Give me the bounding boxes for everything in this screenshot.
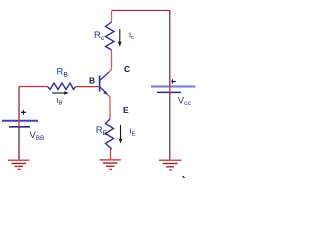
wire left branch horizontal — [19, 86, 48, 88]
svg-text:C: C — [124, 64, 130, 74]
plus VCC — [171, 79, 176, 84]
resistor RB — [48, 83, 76, 90]
resistor RC — [106, 22, 115, 50]
wire emitter lead — [108, 95, 111, 120]
transistor Q1 — [100, 72, 109, 95]
wire top rail — [112, 10, 171, 12]
arrow IC — [118, 29, 122, 47]
arrow IE — [119, 125, 123, 143]
wire VCC to ground — [169, 93, 171, 160]
wire RE to ground — [110, 150, 112, 160]
wire RC top lead — [111, 11, 113, 23]
wire right supply drop to VCC — [169, 11, 171, 86]
ground right — [159, 160, 182, 170]
wire left branch vertical — [18, 87, 20, 121]
svg-text:E: E — [123, 105, 129, 115]
wire collector lead — [109, 50, 112, 72]
battery VBB — [2, 120, 38, 128]
ground middle — [100, 160, 122, 170]
ground left — [8, 160, 30, 169]
wire VBB to ground — [18, 127, 20, 160]
battery VCC — [151, 85, 196, 95]
plus VBB — [21, 110, 26, 115]
wire base — [76, 86, 100, 88]
resistor RE — [106, 119, 114, 150]
stray mark — [183, 176, 185, 178]
svg-text:B: B — [89, 75, 95, 85]
arrow IB — [52, 91, 69, 95]
